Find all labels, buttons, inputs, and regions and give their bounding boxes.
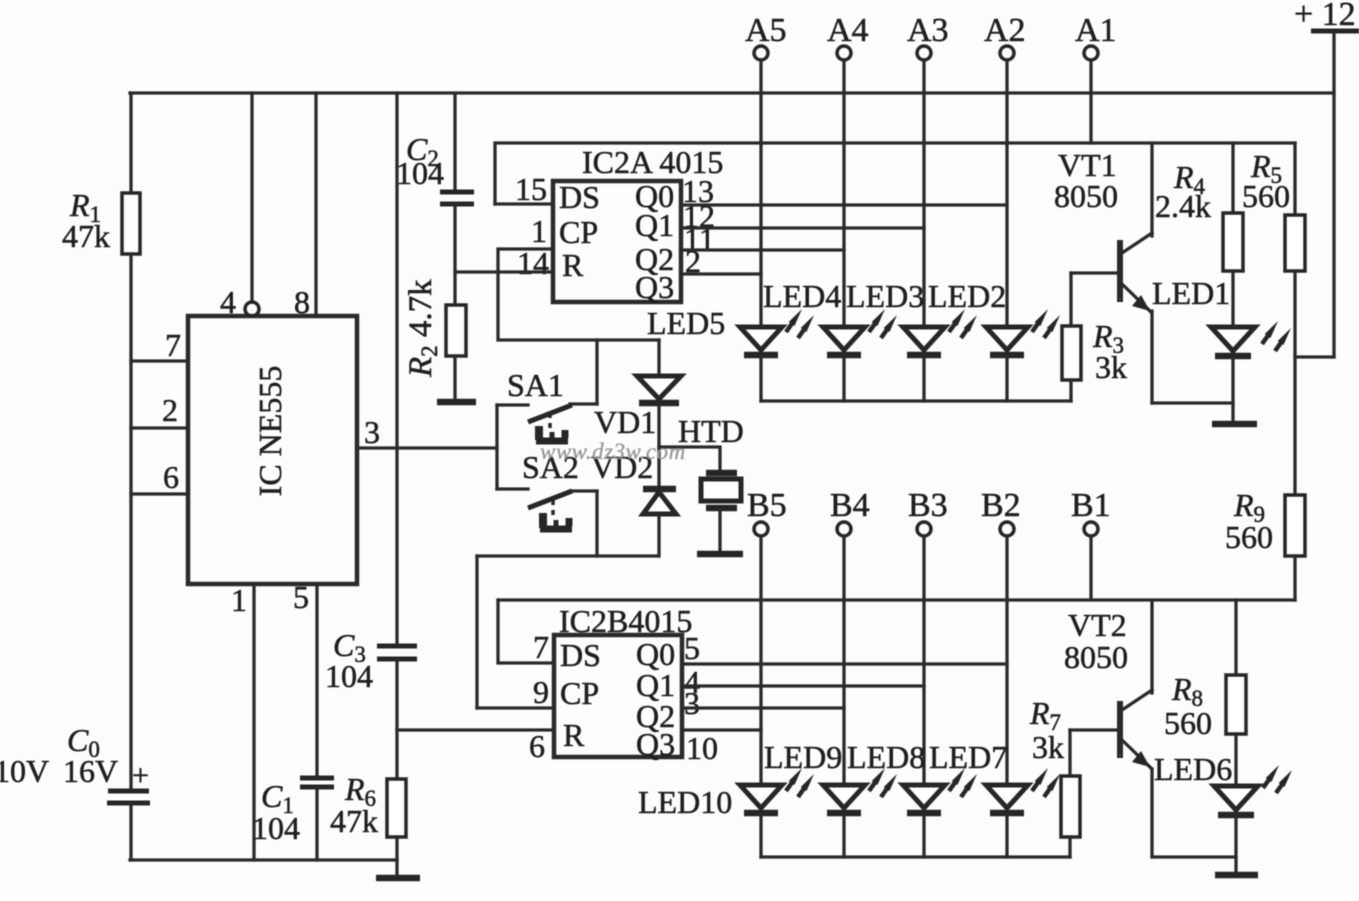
svg-text:B4: B4 (830, 487, 870, 524)
svg-text:+: + (132, 759, 149, 792)
wire IC2A DS input stub (495, 202, 553, 205)
wire IC2A CP input from SA1 (498, 249, 659, 340)
wire R9 bottom to rail (1293, 556, 1296, 600)
resistor R9 (1285, 495, 1305, 556)
svg-text:A2: A2 (984, 12, 1026, 49)
wire SA1/SA2 common vertical (495, 405, 498, 489)
wire R3 bottom (1069, 380, 1072, 401)
wire pin6 stub (131, 492, 188, 495)
svg-text:LED3: LED3 (846, 278, 924, 314)
wire A3 vertical (922, 60, 925, 326)
wire Q2 to A4 (681, 248, 844, 251)
wire C3 to R6 (395, 661, 398, 779)
wire A2 vertical (1005, 60, 1008, 326)
R2 bottom terminal bar (437, 399, 476, 406)
wire R7 top (1068, 730, 1071, 776)
wire left supply vertical (129, 93, 132, 193)
LED1 (1211, 321, 1291, 356)
svg-text:47k: 47k (62, 218, 110, 254)
svg-text:R: R (562, 247, 584, 283)
wire LED8 cathode (922, 815, 925, 857)
svg-text:5: 5 (684, 630, 700, 666)
wire IC2A R input (455, 270, 553, 273)
ground under R6 (376, 875, 420, 882)
wire LED10 cathode (759, 815, 762, 857)
svg-text:560: 560 (1164, 705, 1212, 741)
wire A5 vertical (759, 60, 762, 326)
wire B2 vertical (1005, 536, 1008, 784)
buzzer HTD (697, 473, 743, 554)
wire R5 bottom to R9 (1293, 271, 1296, 495)
svg-text:A1: A1 (1075, 12, 1117, 49)
svg-text:16V: 16V (63, 753, 118, 789)
svg-text:IC NE555: IC NE555 (252, 366, 288, 497)
svg-text:LED4: LED4 (763, 278, 841, 314)
wire pin4 vertical (250, 93, 253, 302)
svg-text:3: 3 (684, 685, 700, 721)
terminal A1 (1075, 12, 1117, 60)
wire Q2 to B4 (682, 706, 844, 709)
terminal A3 (907, 12, 949, 60)
wire VT1 collector drop (1150, 143, 1153, 236)
svg-text:10V: 10V (0, 753, 49, 789)
LED5 (740, 309, 814, 355)
wire B section rail (498, 598, 1295, 601)
wire B1 vertical (1089, 536, 1092, 600)
wire pin2 stub (131, 426, 188, 429)
LED3 (903, 309, 977, 355)
resistor R4 (1223, 213, 1243, 271)
svg-text:A3: A3 (907, 12, 949, 49)
wire IC2B CP input (477, 706, 554, 709)
ground under LED6 (1215, 872, 1258, 879)
svg-text:104: 104 (396, 155, 444, 191)
LED8 (903, 768, 977, 813)
wire bus down to IC2B CP (475, 556, 478, 708)
wire C0 bottom (129, 803, 132, 860)
capacitor C2 (440, 192, 474, 204)
switch SA1 (497, 404, 597, 441)
C3/R6 branch vertical from rail (395, 93, 398, 644)
svg-text:10: 10 (686, 730, 718, 766)
svg-text:3k: 3k (1032, 729, 1064, 765)
wire pin8 vertical (314, 93, 317, 316)
wire +12 to R5 bottom node (1295, 355, 1334, 358)
wire LED cathode bus A (761, 399, 1071, 402)
wire LED5 cathode (759, 357, 762, 401)
wire VD1 top from CP net (657, 340, 660, 375)
diode VD1 (637, 376, 681, 403)
svg-text:8050: 8050 (1054, 178, 1118, 214)
terminal A2 (984, 12, 1026, 60)
wire IC2A feedback top (Q3 row to DS) (495, 143, 1295, 204)
resistor R3 (1062, 326, 1081, 380)
LED7 (986, 768, 1060, 813)
wire R4 to LED1 (1231, 271, 1234, 326)
wire IC2B feedback from rail to DS (498, 600, 554, 663)
wire SA bottom bus (477, 554, 658, 557)
svg-text:15: 15 (515, 171, 547, 207)
wire R8 to LED6 (1234, 734, 1237, 785)
svg-text:104: 104 (252, 810, 300, 846)
svg-text:47k: 47k (330, 803, 378, 839)
wire LED1 to ground (1231, 358, 1234, 421)
wire LED3 cathode (922, 357, 925, 401)
LED4 (823, 309, 897, 355)
svg-text:Q3: Q3 (636, 726, 675, 762)
svg-text:B2: B2 (981, 487, 1021, 524)
wire R4 top (1231, 143, 1234, 213)
svg-text:VT2: VT2 (1068, 607, 1127, 643)
resistor R8 (1226, 675, 1246, 734)
wire C1 bottom (315, 790, 318, 860)
wire C2 to R2 (453, 206, 456, 305)
resistor R7 (1061, 776, 1080, 837)
IC2A U2A box (553, 181, 681, 302)
svg-text:6: 6 (163, 459, 179, 495)
svg-text:9: 9 (533, 674, 549, 710)
svg-text:1: 1 (531, 213, 547, 249)
wire R2 bottom (453, 356, 456, 400)
svg-text:2: 2 (162, 392, 178, 428)
svg-text:A5: A5 (745, 12, 787, 49)
wire pin7 stub (131, 359, 188, 362)
svg-text:5: 5 (293, 579, 309, 615)
wire LED7 cathode (1005, 815, 1008, 857)
svg-text:LED6: LED6 (1154, 751, 1232, 787)
terminal B3 (908, 487, 948, 536)
svg-text:CP: CP (560, 675, 599, 711)
svg-text:HTD: HTD (678, 413, 744, 449)
resistor R1 (122, 193, 140, 254)
svg-text:+ 12: + 12 (1294, 0, 1356, 33)
svg-text:Q3: Q3 (635, 269, 674, 305)
svg-text:560: 560 (1242, 178, 1290, 214)
svg-text:LED1: LED1 (1152, 275, 1230, 311)
LED9 (823, 768, 897, 813)
IC2B U2B box (554, 635, 682, 757)
svg-text:IC2B4015: IC2B4015 (559, 603, 692, 639)
wire Q1 to A3 (681, 226, 924, 229)
+12 terminal (1294, 0, 1359, 33)
wire VT2 base (1070, 728, 1118, 731)
terminal B2 (981, 487, 1021, 536)
resistor R6 (387, 779, 406, 837)
wire R1 bottom to C0 (129, 254, 132, 788)
svg-text:SA1: SA1 (507, 367, 564, 403)
wire VT2 emitter drop (1150, 769, 1153, 857)
transistor VT2 (1120, 690, 1152, 768)
svg-text:R2 4.7k: R2 4.7k (403, 279, 442, 378)
svg-text:CP: CP (559, 214, 598, 250)
capacitor C1 (300, 778, 334, 787)
wire emitter to LED6 cathode (1152, 855, 1236, 858)
terminal A5 (745, 12, 787, 60)
wire VT1 base (1071, 271, 1118, 274)
terminal B4 (830, 487, 870, 536)
svg-text:DS: DS (559, 179, 600, 215)
svg-text:8: 8 (294, 284, 310, 320)
wire SA1 right riser (595, 340, 598, 404)
svg-text:R: R (563, 717, 585, 753)
terminal B1 (1071, 487, 1111, 536)
wire VD1 to VD2 (657, 403, 660, 489)
wire R6 bottom to ground (395, 837, 398, 875)
IC NE555 U1 box (188, 316, 357, 584)
transistor VT1 (1120, 233, 1152, 312)
svg-text:B5: B5 (747, 487, 787, 524)
wire B3 vertical (922, 536, 925, 784)
terminal B5 (747, 487, 787, 536)
wire SA2 right drop (595, 491, 598, 556)
wire VD2 to bus (657, 514, 660, 556)
wire Q1 to B3 (682, 684, 924, 687)
resistor R2 (446, 305, 466, 356)
wire A1 vertical (1089, 60, 1092, 143)
svg-text:DS: DS (560, 637, 601, 673)
svg-text:Q1: Q1 (635, 207, 674, 243)
wire Q3 to B5 (682, 728, 761, 731)
wire pin5 to C1 (315, 584, 318, 775)
diode VD2 (643, 489, 676, 514)
ground under LED1 (1212, 421, 1257, 428)
svg-text:7: 7 (533, 629, 549, 665)
wire VT1 emitter drop (1150, 311, 1153, 403)
wire A4 vertical (842, 60, 845, 326)
wire HTD branch (659, 447, 720, 470)
svg-text:LED5: LED5 (647, 305, 725, 341)
svg-text:6: 6 (529, 728, 545, 764)
svg-text:VD1: VD1 (594, 404, 656, 440)
capacitor C0 (electrolytic) (107, 759, 150, 803)
wire pin1 to ground rail (252, 584, 255, 860)
wire bottom ground rail (130, 858, 397, 861)
wire R3 top (1069, 273, 1072, 326)
wire Q0 to B2 (682, 662, 1007, 665)
svg-text:LED7: LED7 (929, 739, 1007, 775)
svg-text:7: 7 (165, 327, 181, 363)
wire pin3 output (357, 446, 497, 449)
wire B4 vertical (842, 536, 845, 784)
svg-text:www.dz3w.com: www.dz3w.com (540, 439, 686, 464)
wire LED cathode bus B (761, 855, 1070, 858)
svg-text:560: 560 (1225, 519, 1273, 555)
terminal A4 (827, 12, 869, 60)
wire emitter to LED1 cathode (1152, 401, 1233, 404)
svg-text:8050: 8050 (1064, 639, 1128, 675)
svg-text:LED9: LED9 (764, 739, 842, 775)
svg-text:LED8: LED8 (847, 739, 925, 775)
wire IC2B R input (397, 728, 554, 731)
wire Q3 to A5 (681, 272, 761, 275)
LED6 (1214, 765, 1292, 815)
wire +12 vertical drop (1332, 31, 1335, 357)
svg-text:1: 1 (231, 582, 247, 618)
svg-text:LED2: LED2 (928, 278, 1006, 314)
svg-text:LED10: LED10 (638, 784, 732, 820)
pin 4 reset bubble (245, 302, 259, 316)
wire VT2 collector drop (1150, 600, 1153, 693)
svg-text:A4: A4 (827, 12, 869, 49)
svg-text:2.4k: 2.4k (1155, 188, 1211, 224)
wire LED9 cathode (842, 815, 845, 857)
wire R7 bottom (1068, 837, 1071, 857)
wire B5 vertical (759, 536, 762, 784)
svg-text:3k: 3k (1095, 349, 1127, 385)
wire LED2 cathode (1005, 357, 1008, 401)
svg-text:3: 3 (364, 414, 380, 450)
wire LED4 cathode (842, 357, 845, 401)
LED10 (740, 768, 814, 813)
switch SA2 (497, 489, 597, 529)
LED2 (986, 309, 1060, 355)
wire C2 branch vertical (453, 94, 456, 190)
svg-text:B3: B3 (908, 487, 948, 524)
svg-text:B1: B1 (1071, 487, 1111, 524)
wire R8 top (1234, 600, 1237, 675)
capacitor C3 (377, 646, 417, 659)
svg-text:4: 4 (220, 284, 236, 320)
resistor R5 (1285, 215, 1305, 271)
wire R5 top (1293, 143, 1296, 215)
wire top +12V supply rail (130, 91, 1334, 94)
svg-text:104: 104 (325, 658, 373, 694)
wire Q0 to A2 (681, 203, 1007, 206)
wire LED6 to ground (1234, 817, 1237, 872)
